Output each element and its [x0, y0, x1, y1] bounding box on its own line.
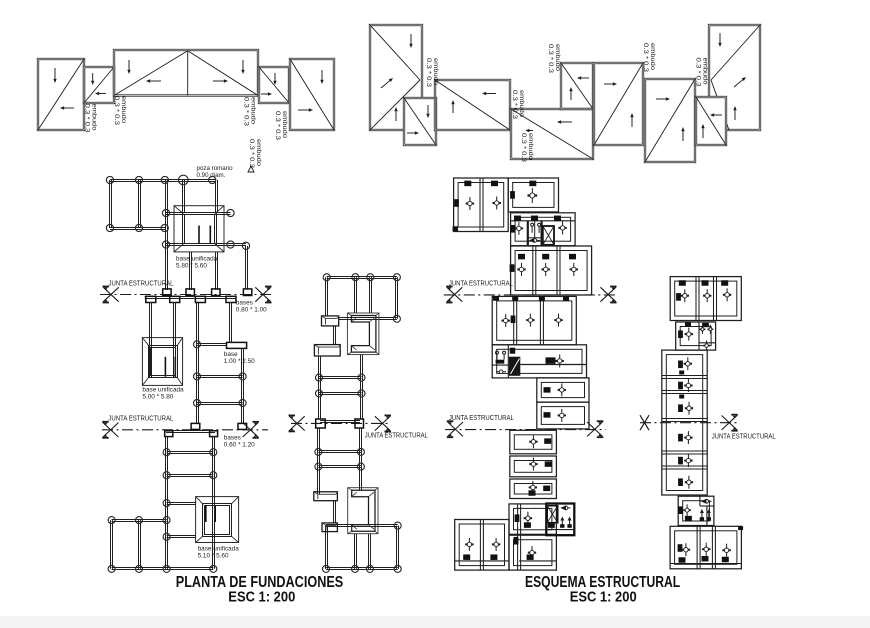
base unificada 5.10x5.60: [196, 497, 240, 560]
column circles mid: [194, 341, 247, 407]
embudo label: [425, 58, 439, 88]
svg-text:5.10 * 5.60: 5.10 * 5.60: [198, 553, 229, 560]
foundation plan 1: [100, 165, 272, 572]
svg-text:base unificada: base unificada: [176, 256, 218, 263]
left annex: [455, 520, 509, 571]
svg-text:0.3 * 0.3: 0.3 * 0.3: [695, 58, 702, 88]
roof panel B6: [594, 63, 643, 145]
embudo label: [274, 111, 288, 141]
roof panel B1: [370, 25, 422, 130]
svg-text:bases: bases: [224, 435, 241, 442]
svg-text:0.3 * 0.3: 0.3 * 0.3: [547, 44, 554, 74]
svg-text:poza romano: poza romano: [197, 165, 234, 172]
block T1 top: [670, 277, 741, 321]
block T4: [678, 496, 714, 525]
svg-text:0.60 * 1.20: 0.60 * 1.20: [224, 442, 255, 449]
stair annex with X: [546, 504, 574, 536]
svg-text:JUNTA ESTRUCTURAL: JUNTA ESTRUCTURAL: [109, 279, 174, 288]
roof panel B7: [645, 79, 695, 162]
bottom ladder beams: [111, 436, 215, 570]
block S9 cell3: [510, 479, 557, 499]
mid beams: [319, 355, 363, 419]
junta line 1: [444, 294, 616, 296]
svg-text:0.3 * 0.3: 0.3 * 0.3: [243, 97, 250, 127]
roof panel A4: [259, 67, 289, 103]
junta X mark: [446, 287, 462, 303]
svg-text:base: base: [224, 351, 238, 358]
junta line: [640, 422, 740, 424]
block S9 cell2: [510, 456, 557, 477]
top grid beams: [110, 180, 247, 291]
svg-text:embudo: embudo: [281, 111, 288, 139]
embudo label: [511, 90, 525, 120]
embudo label: [243, 97, 257, 127]
column pads at junta 2: [191, 423, 247, 429]
svg-text:ESC 1: 200: ESC 1: 200: [570, 589, 637, 606]
connector beam: [333, 501, 335, 523]
column pads at junta: [316, 419, 364, 428]
block T2: [676, 322, 716, 351]
roof panel B4: [511, 109, 593, 159]
svg-text:JUNTA ESTRUCTURAL: JUNTA ESTRUCTURAL: [712, 431, 776, 440]
block S4: [510, 246, 592, 295]
roof panel B5: [561, 63, 593, 109]
svg-text:embudo: embudo: [250, 97, 257, 125]
junta X mark: [289, 415, 305, 431]
junta line: [291, 422, 390, 424]
structural scheme 1: [444, 178, 617, 570]
roof panel B8: [696, 97, 726, 145]
block S6: [492, 345, 587, 378]
roof panel A3 main: [114, 50, 258, 96]
embudo label: [695, 58, 709, 88]
block T3 stack: [662, 350, 707, 495]
column circles lower: [315, 448, 365, 470]
base pad 3d: [314, 345, 340, 356]
junta line 2: [102, 429, 268, 431]
pads below junta 2: [165, 431, 218, 437]
combined footing C shape: [347, 313, 379, 355]
column circles bottom: [108, 449, 217, 573]
junta X mark: [600, 287, 616, 303]
svg-text:0.3 * 0.3: 0.3 * 0.3: [520, 133, 527, 163]
base 1.00x2.50 pad: [224, 342, 255, 365]
svg-text:embudo: embudo: [91, 104, 98, 132]
base unificada 5.80x5.60: [174, 206, 224, 270]
svg-text:0.3 * 0.3: 0.3 * 0.3: [274, 111, 281, 141]
svg-text:embudo: embudo: [432, 58, 439, 86]
lower beams: [318, 428, 362, 494]
bottom square beams: [326, 525, 399, 570]
beams mid section: [150, 302, 244, 423]
block S9 cell1: [510, 430, 557, 454]
svg-text:JUNTA ESTRUCTURAL: JUNTA ESTRUCTURAL: [108, 414, 173, 423]
base unificada 5.00x5.80: [142, 338, 184, 401]
svg-text:bases: bases: [236, 300, 253, 307]
svg-text:embudo: embudo: [702, 58, 709, 86]
column circles top: [106, 175, 249, 249]
block S5: [492, 296, 576, 345]
svg-text:0.3 * 0.3: 0.3 * 0.3: [113, 96, 120, 126]
svg-text:5.00 * 5.80: 5.00 * 5.80: [142, 394, 173, 401]
connector beam: [333, 326, 335, 345]
svg-text:base unificada: base unificada: [198, 546, 240, 553]
roof plan right: [370, 25, 760, 163]
column pads at junta 1: [163, 289, 252, 296]
svg-text:JUNTA ESTRUCTURAL: JUNTA ESTRUCTURAL: [449, 413, 514, 422]
block S3 stair core: [511, 213, 575, 246]
svg-text:embudo: embudo: [255, 139, 262, 167]
svg-text:0.3 * 0.3: 0.3 * 0.3: [248, 139, 255, 169]
junta line 1: [100, 294, 272, 296]
roof panel B2: [404, 98, 436, 145]
column circles bottom: [323, 522, 402, 572]
svg-text:0.90 diam.: 0.90 diam.: [197, 172, 226, 179]
svg-text:0.3 * 0.3: 0.3 * 0.3: [425, 58, 432, 88]
roof plan left: [38, 50, 334, 169]
junta line 2: [445, 429, 605, 431]
embudo label: [113, 96, 127, 126]
pads below junta 1: [145, 296, 237, 302]
top beams: [326, 277, 398, 320]
embudo label: [527, 130, 533, 132]
svg-text:0.3 * 0.3: 0.3 * 0.3: [642, 43, 649, 73]
svg-text:embudo: embudo: [649, 43, 656, 71]
block S2 top right: [508, 178, 558, 212]
junta X mark: [587, 421, 603, 437]
structural scheme 2: [640, 277, 776, 569]
svg-text:0.3 * 0.3: 0.3 * 0.3: [84, 104, 91, 134]
junta X mark: [102, 422, 118, 438]
block S9 cell5: [509, 535, 556, 570]
block S8: [537, 402, 589, 429]
block S7: [537, 378, 589, 402]
embudo label: [642, 43, 656, 73]
roof panel A1: [38, 59, 84, 130]
block S1 top left: [453, 178, 509, 232]
beams to junta 1: [190, 246, 248, 290]
svg-text:0.3 * 0.3: 0.3 * 0.3: [511, 90, 518, 120]
svg-text:embudo: embudo: [120, 96, 127, 124]
embudo label: [84, 104, 98, 134]
foundation plan 2: [289, 274, 428, 573]
svg-text:embudo: embudo: [518, 90, 525, 118]
roof panel B9: [709, 25, 760, 130]
combined footing C shape: [348, 488, 378, 534]
roof panel A2: [84, 67, 114, 103]
svg-text:JUNTA ESTRUCTURAL: JUNTA ESTRUCTURAL: [449, 279, 513, 288]
svg-text:1.00 * 2.50: 1.00 * 2.50: [224, 358, 255, 365]
roof panel B3: [435, 80, 510, 130]
svg-text:embudo: embudo: [527, 133, 534, 161]
svg-text:base unificada: base unificada: [142, 387, 184, 394]
base pad 3d: [322, 523, 337, 532]
junta X mark: [722, 415, 738, 431]
north mark: [248, 166, 254, 172]
svg-text:ESC 1: 200: ESC 1: 200: [228, 589, 295, 606]
roof panel A5: [290, 59, 334, 130]
junta X mark: [375, 415, 391, 431]
junta X mark: [447, 421, 463, 437]
junta X mark half: [640, 415, 649, 430]
svg-text:JUNTA ESTRUCTURAL: JUNTA ESTRUCTURAL: [365, 431, 428, 440]
block T5 bottom: [670, 526, 743, 569]
faint bottom strip: [0, 616, 870, 628]
svg-text:0.80 * 1.00: 0.80 * 1.00: [236, 307, 267, 314]
base pad 3d: [314, 492, 338, 501]
junta X mark: [255, 287, 271, 303]
block S9 cell4: [509, 504, 556, 534]
junta X mark: [243, 422, 259, 438]
junta X mark: [103, 287, 119, 303]
base pad 3d: [322, 316, 339, 326]
embudo label: [547, 44, 561, 74]
embudo label: [248, 139, 262, 169]
column circles: [323, 274, 400, 323]
svg-text:embudo: embudo: [554, 44, 561, 72]
column circles mid: [316, 374, 366, 397]
